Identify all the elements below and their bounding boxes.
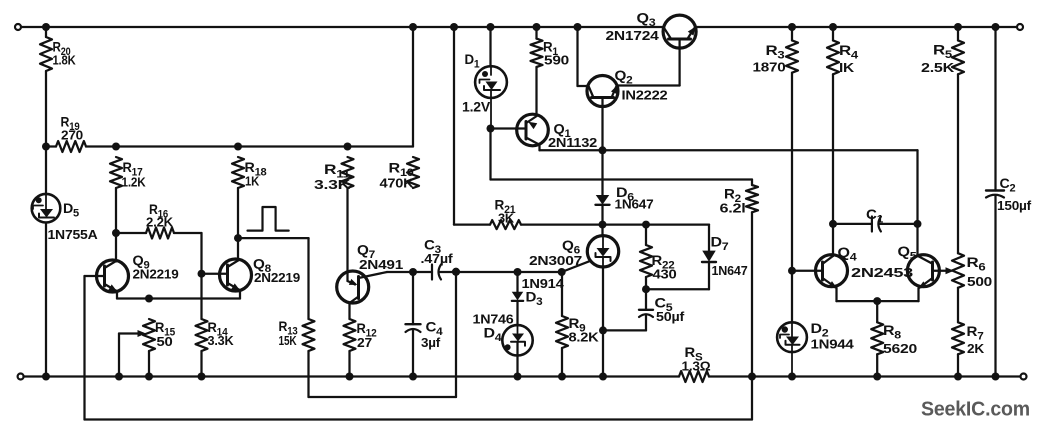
svg-text:1N647: 1N647 [712, 263, 748, 278]
svg-text:2N491: 2N491 [359, 257, 403, 272]
svg-text:270: 270 [61, 128, 83, 143]
svg-text:2N2219: 2N2219 [133, 267, 179, 282]
svg-text:1N944: 1N944 [811, 337, 855, 352]
svg-text:150µf: 150µf [997, 198, 1032, 213]
svg-text:1.3Ω: 1.3Ω [682, 359, 711, 374]
svg-text:500: 500 [967, 274, 992, 289]
svg-text:.47µf: .47µf [421, 251, 454, 266]
svg-text:1.2K: 1.2K [122, 175, 147, 190]
svg-text:2N1724: 2N1724 [606, 28, 660, 43]
svg-text:3.3K: 3.3K [208, 333, 235, 348]
svg-text:IN2222: IN2222 [622, 88, 668, 103]
svg-text:3µf: 3µf [421, 335, 441, 350]
svg-text:27: 27 [357, 335, 372, 350]
svg-text:3.3K: 3.3K [314, 177, 351, 192]
svg-text:50µf: 50µf [656, 309, 685, 324]
svg-text:2.5K: 2.5K [921, 60, 955, 75]
svg-text:IK: IK [839, 60, 855, 75]
svg-text:8.2K: 8.2K [569, 330, 600, 345]
svg-text:2.2K: 2.2K [146, 215, 174, 230]
svg-text:2N1132: 2N1132 [548, 135, 597, 150]
svg-text:2N2219: 2N2219 [254, 270, 300, 285]
svg-text:2N3007: 2N3007 [529, 253, 582, 268]
svg-text:2K: 2K [967, 341, 985, 356]
svg-text:5620: 5620 [883, 341, 917, 356]
svg-text:590: 590 [544, 53, 569, 68]
svg-text:50: 50 [157, 334, 173, 349]
svg-text:1.2V: 1.2V [462, 100, 490, 115]
svg-text:1N647: 1N647 [615, 197, 654, 212]
svg-text:470K: 470K [380, 176, 415, 191]
svg-text:2N2453: 2N2453 [851, 265, 913, 280]
svg-text:6.2l: 6.2l [720, 201, 746, 216]
svg-text:1.8K: 1.8K [53, 53, 77, 68]
svg-text:1N755A: 1N755A [48, 227, 99, 242]
svg-text:15K: 15K [279, 333, 298, 348]
svg-text:430: 430 [653, 267, 677, 282]
svg-text:1870: 1870 [753, 60, 786, 75]
svg-text:3K: 3K [498, 211, 515, 226]
svg-text:SeekIC.com: SeekIC.com [921, 398, 1030, 421]
svg-text:1K: 1K [245, 174, 260, 189]
